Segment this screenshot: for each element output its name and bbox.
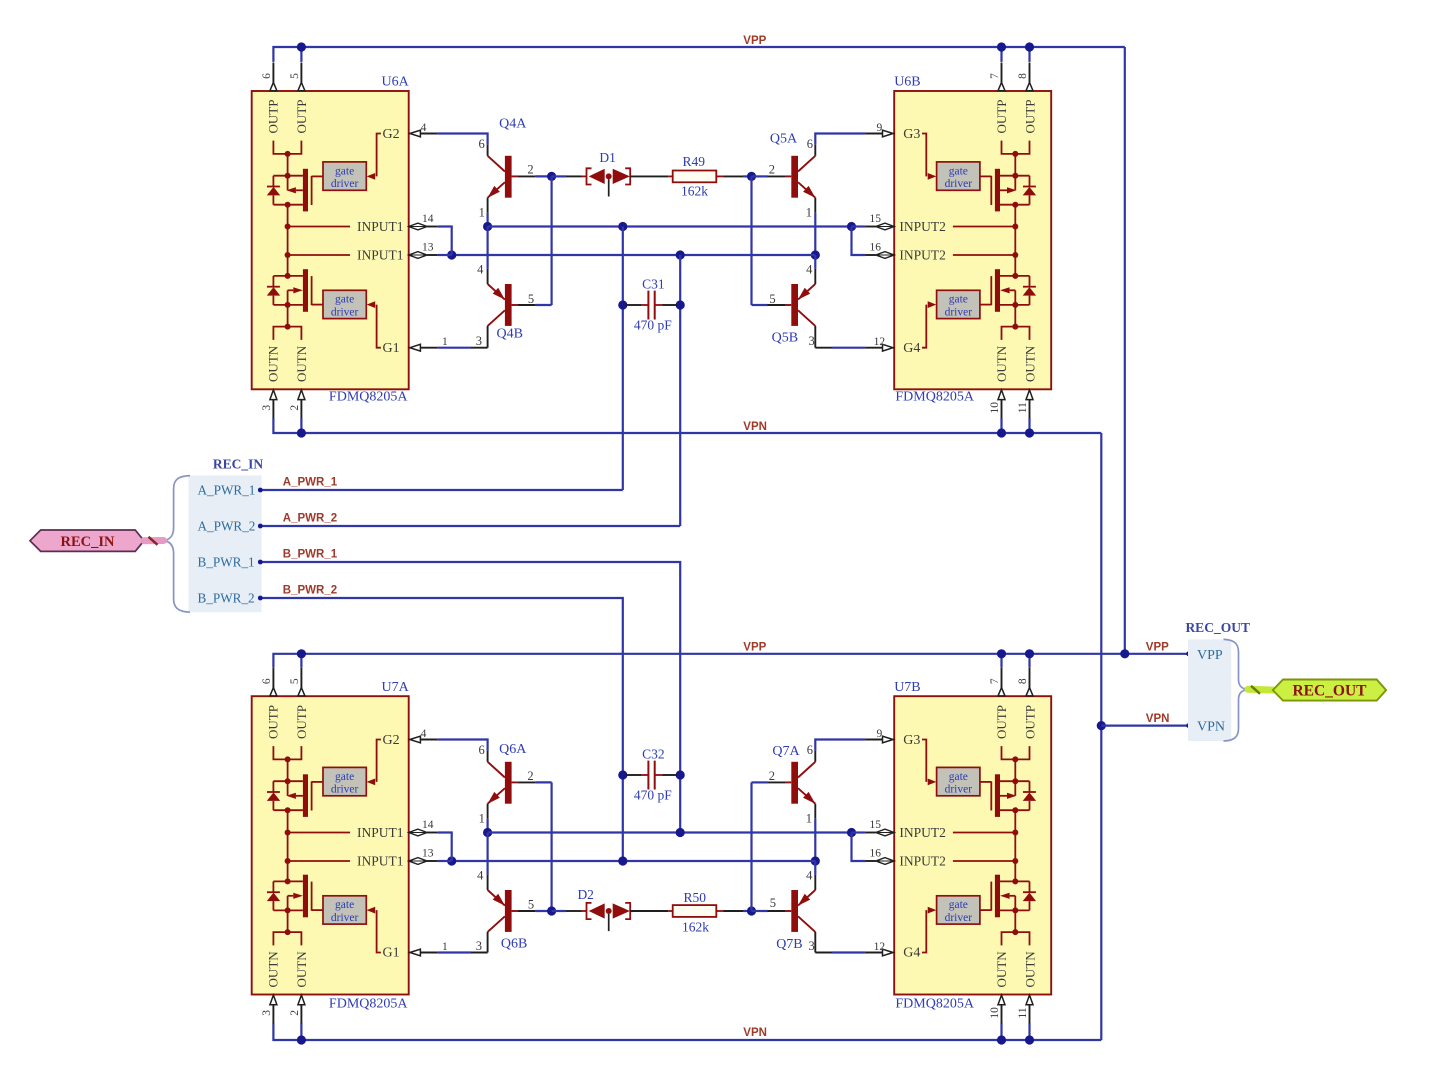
- junction VPN/pin10-U7B: [997, 1035, 1006, 1044]
- wire INPUT1 bus (row2b): [452, 860, 816, 862]
- svg-text:G4: G4: [903, 341, 920, 356]
- svg-text:driver: driver: [331, 306, 359, 318]
- pin 3 (U7A bottom): [270, 995, 277, 1005]
- svg-text:6: 6: [807, 743, 813, 757]
- svg-text:7: 7: [989, 73, 1001, 79]
- svg-text:6: 6: [807, 137, 813, 151]
- wire Q5B pin3 to U6B G4: [815, 347, 832, 349]
- port dot VPN (REC_OUT): [1186, 723, 1191, 728]
- svg-text:gate: gate: [949, 294, 968, 306]
- wire VPN long vertical to REC_OUT: [1100, 433, 1102, 1040]
- wire U6A G2 to Q4A pin 6: [438, 134, 488, 145]
- wire U6A pin13 link: [438, 254, 452, 256]
- svg-text:5: 5: [289, 73, 301, 79]
- junction row1b / C32 right column: [676, 828, 685, 837]
- svg-text:gate: gate: [335, 771, 354, 783]
- pin 10 (U6B bottom): [998, 390, 1005, 400]
- gate driver box lower (U6A): [323, 290, 366, 318]
- wire Q6B pin3 to U7A G1: [471, 952, 488, 954]
- svg-text:D2: D2: [577, 887, 594, 902]
- svg-text:6: 6: [261, 678, 273, 684]
- wire INPUT1 bus (row2): [452, 254, 816, 256]
- wire pin11 U6B to VPN: [1028, 418, 1030, 433]
- transistor Q4A base lead: [512, 175, 518, 177]
- svg-text:driver: driver: [945, 783, 973, 795]
- transistor Q5A emitter/collector diagonals: [798, 156, 815, 198]
- MOSFET lower (U7B): [980, 875, 1036, 918]
- OUTN common node (U6B): [1014, 305, 1016, 327]
- wire pin7 U6B to VPP: [1000, 47, 1002, 62]
- OUTN common node (U7A): [287, 910, 289, 932]
- junction VPN/pin10-U6B: [997, 428, 1006, 437]
- pin 3 stub Q5B: [814, 326, 816, 348]
- pin 9 (U6B side): [893, 133, 894, 135]
- wire Q7B base from junction: [752, 910, 768, 912]
- harness entry flag REC_IN: [30, 530, 144, 551]
- wire Q6A pin1 down: [487, 819, 489, 833]
- svg-text:1: 1: [479, 811, 485, 825]
- svg-text:R49: R49: [683, 154, 706, 169]
- wire U6B pin15 link: [852, 225, 866, 227]
- svg-text:6: 6: [478, 137, 484, 151]
- gate driver box upper (U6B): [937, 162, 980, 190]
- svg-text:4: 4: [421, 728, 427, 740]
- wire Q7A pin1 to Q7B pin4: [814, 861, 816, 875]
- svg-text:10: 10: [989, 402, 1001, 414]
- pin 1 (U7A side): [409, 952, 410, 954]
- OUTP common node (U7A): [273, 746, 301, 759]
- svg-text:7: 7: [989, 678, 1001, 684]
- gate driver arrow G-top (U6B): [928, 173, 937, 180]
- pin 16 (U6B side): [876, 252, 894, 259]
- wire to Q5B base: [752, 304, 768, 306]
- net line INPUT2 upper (U7B): [953, 832, 1015, 834]
- svg-text:5: 5: [769, 292, 775, 306]
- svg-text:9: 9: [877, 122, 883, 134]
- svg-text:1: 1: [806, 205, 812, 219]
- svg-text:4: 4: [421, 122, 427, 134]
- transistor Q7A base lead: [786, 781, 792, 783]
- wire Q7A pin6 to U7B pin9: [815, 740, 865, 751]
- wire base tie Q4A-Q4B vertical: [550, 176, 552, 305]
- gate hook wire (U6B): [922, 134, 926, 177]
- pin 3 stub Q7B: [814, 932, 816, 953]
- pin 4 (U7A side): [409, 739, 410, 741]
- svg-text:INPUT1: INPUT1: [357, 219, 404, 234]
- transistor Q7B arrow: [798, 894, 810, 906]
- junction row2b / U7A pin14 link: [447, 856, 456, 865]
- pin 11 (U6B bottom): [1026, 390, 1033, 400]
- cable REC_IN flag to brace: [144, 537, 163, 544]
- svg-text:R50: R50: [683, 890, 706, 905]
- gate hook wire (U6A): [377, 305, 381, 348]
- svg-text:VPP: VPP: [1146, 641, 1169, 653]
- svg-text:INPUT2: INPUT2: [899, 825, 946, 840]
- svg-text:D1: D1: [599, 150, 616, 165]
- svg-text:4: 4: [806, 869, 813, 883]
- svg-text:G2: G2: [383, 733, 400, 748]
- wire Q5A pin1 down: [814, 213, 816, 255]
- capacitor C32: [626, 761, 677, 790]
- svg-text:2: 2: [769, 769, 775, 783]
- junction Q5A pin1 / INPUT1 bus: [811, 250, 820, 259]
- wire D2 to R50: [630, 910, 668, 912]
- svg-text:OUTP: OUTP: [994, 705, 1009, 739]
- diode D1: [582, 168, 631, 184]
- svg-text:14: 14: [422, 213, 434, 225]
- net line INPUT2 lower (U6B): [953, 254, 1015, 256]
- MOSFET upper (U7B): [980, 774, 1036, 817]
- svg-text:VPN: VPN: [743, 1027, 767, 1039]
- pin 12 (U7B side): [893, 952, 894, 954]
- svg-text:OUTN: OUTN: [994, 345, 1009, 382]
- wire C31 right column (A_PWR_2): [679, 255, 681, 526]
- junction VPN/pin11-U6B: [1025, 428, 1034, 437]
- svg-text:16: 16: [869, 848, 881, 860]
- transistor Q7A bar: [791, 762, 798, 804]
- gate driver arrow G-top (U6A): [367, 173, 376, 180]
- gate driver box upper (U7B): [937, 767, 980, 795]
- harness REC_OUT box: [1188, 639, 1231, 741]
- transistor Q5B arrow: [798, 288, 810, 300]
- wire pin7 U7B to VPP: [1000, 654, 1002, 668]
- junction VPP/pin7-U7B: [997, 649, 1006, 658]
- junction C32 left: [618, 770, 627, 779]
- gate driver box lower (U7B): [937, 896, 980, 924]
- pin 1 stub Q5A: [814, 198, 816, 213]
- svg-text:Q7A: Q7A: [772, 744, 800, 759]
- svg-text:G4: G4: [903, 946, 920, 961]
- pin 14 (U7A side): [409, 829, 427, 836]
- svg-text:B_PWR_1: B_PWR_1: [198, 555, 255, 570]
- svg-text:5: 5: [289, 678, 301, 684]
- pin 1 (U6A side): [409, 347, 410, 349]
- svg-text:5: 5: [528, 292, 534, 306]
- wire to Q7A base: [752, 781, 768, 783]
- gate driver box lower (U6B): [937, 290, 980, 318]
- svg-text:9: 9: [877, 728, 883, 740]
- pin 6 (U7A top): [272, 668, 274, 688]
- svg-text:gate: gate: [335, 165, 354, 177]
- pin 1 stub Q4A: [487, 198, 489, 213]
- svg-text:U6B: U6B: [894, 75, 920, 90]
- svg-text:16: 16: [869, 242, 881, 254]
- transistor Q4A arrow: [488, 186, 500, 198]
- junction R50 / Q7B base: [747, 906, 756, 915]
- svg-text:gate: gate: [949, 165, 968, 177]
- IC U6A FDMQ8205A body: [252, 91, 409, 389]
- gate hook wire (U7B): [922, 740, 926, 782]
- transistor Q6A base lead: [512, 781, 518, 783]
- svg-text:B_PWR_2: B_PWR_2: [198, 591, 255, 606]
- pin 5 (U7A top): [300, 668, 302, 688]
- svg-text:14: 14: [422, 819, 434, 831]
- svg-text:OUTN: OUTN: [294, 345, 309, 382]
- pin 15 (U6B side): [876, 223, 894, 230]
- net line INPUT1 upper (U6A): [288, 226, 350, 228]
- wire Q5A pin1 to Q5B pin4: [814, 255, 816, 269]
- pin 13 (U6A side): [409, 252, 427, 259]
- svg-text:VPN: VPN: [743, 421, 767, 433]
- svg-text:driver: driver: [331, 178, 359, 190]
- svg-text:1: 1: [442, 336, 448, 348]
- pin 11 (U7B bottom): [1026, 995, 1033, 1005]
- IC U7A FDMQ8205A body: [252, 696, 409, 994]
- svg-text:gate: gate: [949, 899, 968, 911]
- wire to Q4B base: [535, 304, 551, 306]
- wire pin5 U7A to VPP: [300, 654, 302, 668]
- cable REC_OUT brace to flag: [1248, 686, 1273, 694]
- svg-text:gate: gate: [335, 899, 354, 911]
- svg-text:INPUT1: INPUT1: [357, 825, 404, 840]
- transistor Q6B emitter/collector diagonals: [488, 890, 505, 932]
- svg-text:162k: 162k: [682, 920, 709, 935]
- svg-text:U7B: U7B: [894, 680, 920, 695]
- pin 6 stub Q6A: [487, 751, 489, 762]
- svg-text:2: 2: [769, 162, 775, 176]
- wire pin10 U7B to VPN: [1000, 1023, 1002, 1040]
- svg-text:OUTP: OUTP: [294, 705, 309, 739]
- svg-text:1: 1: [442, 941, 448, 953]
- svg-text:OUTN: OUTN: [994, 951, 1009, 988]
- wire U7A pin14 link: [438, 833, 452, 862]
- svg-text:3: 3: [261, 1010, 273, 1016]
- OUTN common node (U7B): [1014, 910, 1016, 932]
- transistor Q5A base lead: [786, 175, 792, 177]
- svg-text:5: 5: [770, 896, 776, 910]
- net line INPUT2 upper (U6B): [953, 226, 1015, 228]
- svg-text:6: 6: [261, 73, 273, 79]
- wire pin8 U7B to VPP: [1028, 654, 1030, 668]
- svg-text:INPUT2: INPUT2: [899, 854, 946, 869]
- svg-text:VPP: VPP: [743, 641, 766, 653]
- svg-text:INPUT1: INPUT1: [357, 854, 404, 869]
- pin 6 stub Q7A: [814, 751, 816, 762]
- svg-text:11: 11: [1017, 1007, 1029, 1018]
- svg-text:G3: G3: [903, 733, 920, 748]
- wire U7A pin13 link: [438, 860, 452, 862]
- MOSFET upper (U6A): [267, 169, 323, 212]
- svg-text:gate: gate: [949, 771, 968, 783]
- wire D1 to R49: [630, 175, 668, 177]
- svg-text:U7A: U7A: [381, 680, 409, 695]
- D2 center tap: [608, 914, 610, 931]
- pin 7 (U6B top): [1001, 63, 1003, 83]
- svg-text:162k: 162k: [681, 184, 708, 199]
- IC U7B FDMQ8205A body: [894, 696, 1051, 994]
- pin 10 (U7B bottom): [998, 995, 1005, 1005]
- gate hook wire (U7B): [922, 910, 926, 952]
- wire B_PWR_2: [262, 598, 623, 861]
- junction VPN/pin2-U7A: [297, 1035, 306, 1044]
- transistor Q4A emitter/collector diagonals: [488, 156, 505, 198]
- MOSFET upper (U6B): [980, 169, 1036, 212]
- svg-text:OUTP: OUTP: [265, 705, 280, 739]
- svg-text:A_PWR_1: A_PWR_1: [283, 477, 338, 489]
- svg-text:1: 1: [806, 811, 812, 825]
- svg-text:3: 3: [808, 939, 814, 953]
- gate driver arrow G-top (U7B): [928, 779, 937, 786]
- OUTN common node (U6A): [287, 305, 289, 327]
- junction Q4A pin1 / INPUT2 bus: [483, 222, 492, 231]
- resistor R50: [668, 905, 723, 917]
- wire pin2 U6A to VPN: [300, 418, 302, 433]
- pin 6 stub Q5A: [814, 145, 816, 156]
- net line INPUT1 lower (U6A): [288, 254, 350, 256]
- svg-text:driver: driver: [331, 783, 359, 795]
- harness REC_IN box: [189, 475, 262, 612]
- gate driver box upper (U6A): [323, 162, 366, 190]
- junction row1 / U6B pin15: [847, 222, 856, 231]
- svg-text:Q6A: Q6A: [499, 742, 527, 757]
- wire VPN bottom rail: [273, 1023, 1101, 1040]
- svg-text:OUTP: OUTP: [1023, 100, 1038, 134]
- resistor R49: [668, 171, 723, 183]
- gate hook wire (U7A): [377, 740, 381, 782]
- transistor Q6B bar: [505, 890, 512, 932]
- harness REC_OUT brace: [1224, 639, 1249, 741]
- pin 13 (U7A side): [409, 858, 427, 865]
- junction VPP/pin8-U7B: [1025, 649, 1034, 658]
- gate hook wire (U6B): [922, 305, 926, 348]
- wire base tie Q6A-Q6B vertical: [550, 782, 552, 911]
- OUTP common node (U7B): [1002, 746, 1030, 759]
- svg-text:FDMQ8205A: FDMQ8205A: [895, 390, 974, 405]
- svg-text:4: 4: [806, 263, 813, 277]
- svg-text:Q4A: Q4A: [499, 116, 527, 131]
- svg-text:Q4B: Q4B: [497, 326, 523, 341]
- transistor Q4B arrow: [493, 288, 505, 300]
- net line INPUT1 lower (U7A): [288, 860, 350, 862]
- transistor Q6A arrow: [488, 792, 500, 804]
- junction VPN / REC_OUT wire: [1097, 721, 1106, 730]
- junction row2 / C31 right column: [676, 250, 685, 259]
- transistor Q6A bar: [505, 762, 512, 804]
- svg-text:4: 4: [477, 263, 484, 277]
- svg-text:470 pF: 470 pF: [634, 317, 672, 332]
- pin 4 stub Q5B: [814, 269, 816, 284]
- wire Q7A pin1 down: [814, 819, 816, 861]
- svg-text:OUTP: OUTP: [265, 100, 280, 134]
- pin 2 (U6A bottom): [298, 390, 305, 400]
- wire U7A G2 to Q6A pin 6: [438, 740, 488, 751]
- wire INPUT2 bus (row1): [488, 225, 852, 227]
- svg-text:FDMQ8205A: FDMQ8205A: [329, 390, 408, 405]
- capacitor C31: [626, 291, 677, 320]
- svg-text:INPUT2: INPUT2: [899, 219, 946, 234]
- transistor Q4B base lead: [512, 304, 518, 306]
- pin 4 stub Q7B: [814, 875, 816, 890]
- svg-text:G2: G2: [383, 127, 400, 142]
- svg-text:3: 3: [476, 939, 482, 953]
- gate hook wire (U6A): [377, 134, 381, 177]
- transistor Q6B base lead: [512, 910, 518, 912]
- wire D2 row left: [552, 910, 566, 912]
- harness REC_IN brace: [163, 476, 190, 613]
- wire pin8 U6B to VPP: [1028, 47, 1030, 62]
- internal node INPUT1 taps (U6A): [287, 205, 289, 255]
- wire A_PWR_1: [262, 489, 623, 491]
- wire U6A pin14 link: [438, 227, 452, 256]
- svg-text:REC_OUT: REC_OUT: [1292, 683, 1367, 700]
- svg-text:Q7B: Q7B: [776, 937, 802, 952]
- wire R50 right: [724, 910, 744, 912]
- pin 4 (U6A side): [409, 133, 410, 135]
- svg-text:2: 2: [289, 1010, 301, 1016]
- svg-text:Q5B: Q5B: [772, 330, 798, 345]
- svg-text:REC_IN: REC_IN: [61, 534, 116, 550]
- svg-text:B_PWR_1: B_PWR_1: [283, 549, 338, 561]
- svg-text:G1: G1: [383, 341, 400, 356]
- pin 3 stub Q6B: [487, 932, 489, 953]
- pin 9 (U7B side): [893, 739, 894, 741]
- svg-text:driver: driver: [945, 912, 973, 924]
- svg-text:13: 13: [422, 242, 434, 254]
- transistor Q4B emitter/collector diagonals: [488, 284, 505, 326]
- wire Q4A pin1 down: [487, 213, 489, 227]
- pin 1 stub Q6A: [487, 804, 489, 819]
- junction row2 / U6A pin14 link: [447, 250, 456, 259]
- MOSFET lower (U6B): [980, 269, 1036, 312]
- pin 5 (U6A top): [300, 63, 302, 83]
- junction Q4A base / D1 row: [547, 172, 556, 181]
- svg-text:15: 15: [869, 213, 881, 225]
- svg-text:VPN: VPN: [1146, 713, 1170, 725]
- pin 3 stub Q4B: [487, 326, 489, 348]
- wire base tie Q7A-Q7B vertical: [750, 782, 752, 911]
- svg-text:A_PWR_1: A_PWR_1: [198, 483, 256, 498]
- MOSFET lower (U6A): [267, 269, 323, 312]
- transistor Q7B bar: [791, 890, 798, 932]
- svg-text:FDMQ8205A: FDMQ8205A: [895, 996, 974, 1011]
- wire Q4A pin1 to Q4B pin4: [487, 227, 489, 269]
- svg-text:13: 13: [422, 848, 434, 860]
- junction Q6B base / D2 row: [547, 906, 556, 915]
- svg-text:OUTP: OUTP: [294, 100, 309, 134]
- internal node INPUT2 taps (U6B): [1014, 205, 1016, 255]
- wire Q6A pin1 to Q6B pin4: [487, 833, 489, 875]
- junction row1 / C31 left column: [618, 222, 627, 231]
- wire Q6A base right: [535, 781, 551, 783]
- transistor Q7B emitter/collector diagonals: [798, 890, 815, 932]
- svg-text:gate: gate: [335, 294, 354, 306]
- svg-text:2: 2: [527, 162, 533, 176]
- junction VPN/pin11-U7B: [1025, 1035, 1034, 1044]
- junction VPP vertical / lower rail: [1120, 649, 1129, 658]
- junction C32 right: [676, 770, 685, 779]
- svg-text:Q5A: Q5A: [770, 132, 798, 147]
- wire Q5A base from junction: [752, 175, 768, 177]
- svg-text:4: 4: [477, 869, 484, 883]
- junction row1b / U7B pin15: [847, 828, 856, 837]
- transistor Q7B base lead: [786, 910, 792, 912]
- junction VPP/pin7-U6B: [997, 42, 1006, 51]
- transistor Q5A bar: [791, 156, 798, 198]
- wire pin2 U7A to VPN: [300, 1023, 302, 1040]
- junction VPN/pin2-U6A: [297, 428, 306, 437]
- pin 4 stub Q6B: [487, 875, 489, 890]
- pin 3 (U6A bottom): [270, 390, 277, 400]
- transistor Q7A arrow: [803, 792, 815, 804]
- svg-text:1: 1: [479, 205, 485, 219]
- svg-text:OUTP: OUTP: [994, 100, 1009, 134]
- wire INPUT2 bus (row1b): [488, 831, 852, 833]
- svg-text:6: 6: [478, 743, 484, 757]
- internal node INPUT2 taps (U7B): [1014, 810, 1016, 861]
- transistor Q5B bar: [791, 284, 798, 326]
- transistor Q5B base lead: [786, 304, 792, 306]
- svg-text:3: 3: [808, 334, 814, 348]
